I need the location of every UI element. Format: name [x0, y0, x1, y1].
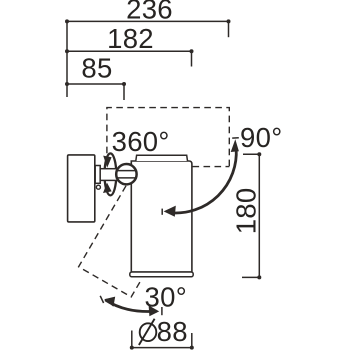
tick at arc left end	[161, 209, 163, 215]
svg-text:180: 180	[231, 188, 262, 235]
knob screw slot	[116, 170, 137, 172]
phi88 dimension	[132, 331, 192, 348]
svg-text:88: 88	[157, 316, 188, 347]
dim 236 line	[67, 20, 229, 22]
wall plate	[68, 155, 95, 222]
svg-text:360°: 360°	[112, 126, 170, 157]
arm	[100, 169, 117, 181]
dashed rectangle: body rotated 90 deg up	[107, 108, 229, 167]
svg-text:236: 236	[126, 0, 173, 25]
bump below bracket	[96, 185, 100, 189]
left extension vertical	[66, 21, 68, 97]
arc arrowhead at body center	[164, 206, 176, 217]
180 dimension	[242, 154, 259, 277]
rotation arrowhead bottom	[103, 183, 112, 193]
svg-text:182: 182	[107, 23, 154, 54]
phi symbol	[139, 319, 156, 345]
mounting bracket	[95, 166, 100, 184]
rotation arrowhead top	[103, 156, 111, 168]
dim end dots	[65, 19, 69, 23]
tick right	[161, 307, 163, 315]
arc arrowhead pointing up at 90deg	[231, 139, 239, 152]
tick at arc top end	[232, 137, 239, 139]
arrowhead left	[104, 297, 115, 307]
top cap	[136, 155, 188, 161]
top dimension lines	[67, 21, 229, 100]
dashed tilted body outline (30 deg swing)	[79, 186, 141, 297]
cylinder body	[131, 161, 192, 272]
svg-text:90°: 90°	[240, 122, 283, 153]
dim 85 line	[67, 83, 124, 85]
arrowhead right	[149, 305, 160, 316]
360 deg rotation ellipse arrow	[105, 153, 117, 195]
dim 182 line	[67, 50, 192, 52]
90 deg swing arc	[171, 149, 237, 214]
knob joint	[116, 164, 136, 184]
tick left	[100, 296, 103, 303]
30 deg swing arc	[105, 300, 156, 312]
svg-text:30°: 30°	[145, 282, 188, 313]
svg-text:85: 85	[81, 53, 112, 84]
bottom rim	[130, 272, 193, 277]
